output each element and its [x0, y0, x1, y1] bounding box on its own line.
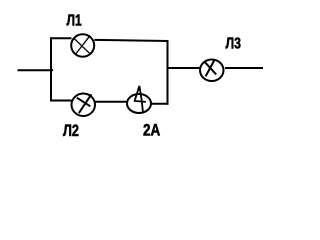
- wire bottom middle segment: [96, 101, 127, 103]
- wire bottom-right segment: [152, 103, 169, 105]
- svg-text:Л2: Л2: [63, 122, 79, 140]
- wire right vertical: [167, 40, 169, 105]
- wire bottom-left segment: [50, 100, 72, 102]
- lamp Л3: [200, 60, 224, 82]
- lamp Л1: [71, 34, 94, 56]
- wire top-left segment: [50, 37, 72, 39]
- svg-text:Л1: Л1: [67, 13, 82, 30]
- wire left vertical: [50, 37, 52, 101]
- lamp Л2: [72, 94, 96, 117]
- svg-text:Л3: Л3: [226, 36, 242, 53]
- svg-text:2А: 2А: [143, 122, 160, 140]
- ammeter 2А: [127, 86, 151, 113]
- wire top-right segment: [94, 40, 168, 41]
- wire right lead: [225, 67, 263, 69]
- wire left lead: [18, 69, 54, 71]
- wire middle lead: [167, 67, 200, 69]
